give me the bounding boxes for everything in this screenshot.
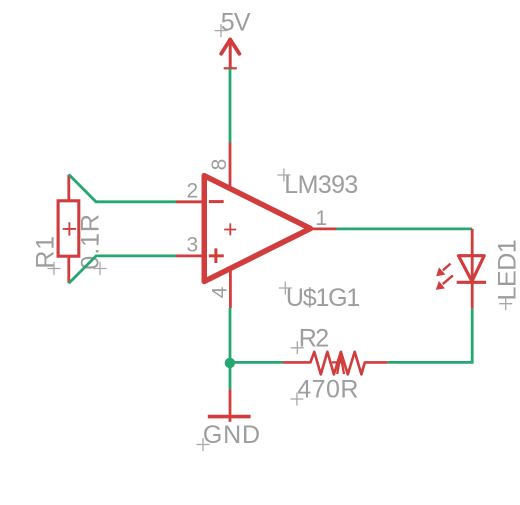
pin 3 stub	[176, 254, 206, 257]
wire +5V to pin 8	[229, 69, 232, 143]
svg-text:5V: 5V	[221, 8, 251, 36]
svg-text:2: 2	[187, 179, 199, 202]
supply +5V symbol	[221, 39, 239, 69]
origin cross of LM393	[277, 169, 290, 182]
wire LED bottom	[387, 308, 472, 362]
op-amp U1 triangle	[204, 176, 310, 282]
origin cross of R2	[291, 341, 304, 354]
pin 2 stub	[176, 200, 206, 203]
wire pin4 down through junction to GND	[229, 308, 232, 389]
LED1 arrow 1	[436, 264, 450, 277]
GND pin lead	[229, 389, 232, 422]
svg-text:470R: 470R	[297, 376, 359, 404]
wire pin2 to R1 top	[69, 175, 176, 202]
LED1 cathode bar	[457, 281, 486, 284]
resistor R2 zigzag	[283, 352, 387, 375]
op-amp plus symbol (pin 3)	[209, 248, 224, 263]
pin 1 stub	[311, 227, 337, 230]
svg-text:8: 8	[208, 159, 231, 171]
GND bar	[208, 415, 251, 419]
LED1 arrow 2	[436, 275, 453, 290]
wire pin3 to R1 bottom	[69, 256, 176, 283]
R1 box plus	[63, 222, 76, 235]
origin cross of 470R	[290, 393, 303, 406]
svg-text:LM393: LM393	[284, 171, 357, 199]
origin cross of +5V	[215, 24, 228, 37]
op-amp minus symbol (pin 2)	[209, 200, 224, 203]
junction dot	[225, 358, 235, 368]
svg-text:LED1: LED1	[494, 240, 520, 301]
resistor R1 stubs	[67, 175, 70, 284]
svg-text:4: 4	[209, 286, 232, 298]
wire R2 left to junction	[230, 361, 283, 364]
wire pin1 to LED	[337, 227, 473, 230]
origin cross of GND	[197, 438, 210, 451]
svg-text:3: 3	[187, 234, 199, 257]
svg-text:U$1G1: U$1G1	[286, 284, 360, 312]
origin cross of R1	[48, 262, 61, 275]
svg-text:R1: R1	[32, 235, 60, 269]
pin 8 stub	[229, 143, 232, 189]
svg-text:GND: GND	[203, 421, 261, 449]
R2 overlap extra segment	[332, 355, 344, 374]
origin cross of 0.1R	[94, 262, 107, 275]
resistor R1 box	[58, 201, 79, 256]
origin cross of U$1G1	[279, 282, 292, 295]
pin 4 stub	[229, 268, 232, 308]
op-amp center plus	[224, 223, 236, 235]
origin cross of LED1	[499, 297, 512, 310]
LED1 triangle	[459, 256, 485, 282]
LED1 vertical lead	[471, 229, 474, 309]
svg-text:1: 1	[316, 207, 328, 230]
